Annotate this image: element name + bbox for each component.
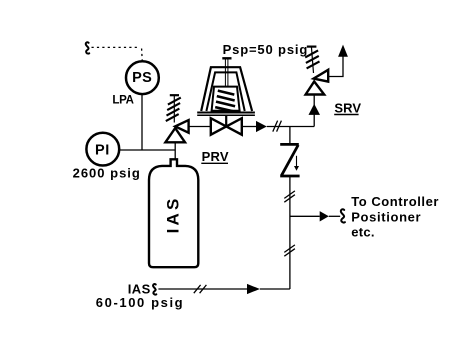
- wire: bottom line after arrow: [260, 288, 290, 290]
- arrow: small down arrow in Z: [296, 156, 298, 166]
- wire: after arrow to squiggle: [329, 215, 340, 217]
- wire: dashed signal line top-left: [92, 47, 143, 60]
- svg-text:PS: PS: [132, 70, 152, 86]
- wire: regulator outlet: [242, 126, 256, 128]
- regulator valve stem: [225, 116, 227, 127]
- svg-text:SRV: SRV: [334, 100, 361, 115]
- wire: vertical line below Z to bottom corner: [289, 176, 291, 289]
- label SRV underline: [334, 114, 358, 116]
- svg-text:PI: PI: [95, 142, 110, 158]
- svg-text:60-100 psig: 60-100 psig: [96, 295, 184, 310]
- valve PRV body (angle valve): [175, 120, 188, 133]
- regulator valve body bowtie: [211, 118, 242, 135]
- svg-text:PRV: PRV: [202, 149, 229, 164]
- pressure switch PS circle: [126, 61, 159, 94]
- arrow: flow right on bottom line: [247, 284, 260, 294]
- wire: SRV vent line: [328, 56, 343, 77]
- wire: PI to tank riser horizontal: [119, 149, 175, 151]
- wire: PS to main line vertical: [141, 94, 143, 150]
- svg-text:Positioner: Positioner: [351, 209, 421, 224]
- svg-text:To Controller: To Controller: [351, 194, 439, 209]
- hatch marks lower on vertical: [284, 245, 295, 256]
- wire: junction down from outlet line to Z restrictor: [289, 127, 291, 145]
- arrow: flow right after regulator: [256, 121, 267, 132]
- node: break squiggle S top-left: [86, 42, 90, 53]
- arrow: flow up into SRV: [309, 104, 321, 115]
- regulator spring coils: [215, 91, 235, 112]
- regulator actuator outer trapezoid: [201, 67, 252, 111]
- node: break squiggle at IAS supply: [153, 284, 156, 295]
- regulator adjustment screw: [222, 57, 231, 59]
- pressure indicator PI circle: [86, 133, 119, 166]
- valve SRV spring hatch: [305, 47, 319, 73]
- svg-text:etc.: etc.: [351, 225, 375, 240]
- valve PRV spring hatch: [166, 95, 181, 122]
- regulator diaphragm plate (double line): [197, 112, 255, 114]
- hatch marks on outlet line: [273, 121, 282, 132]
- regulator actuator inner trapezoid: [206, 72, 244, 111]
- restrictor Z symbol: [280, 144, 299, 176]
- tank IAS outline with nozzle: [149, 159, 198, 267]
- svg-text:LPA: LPA: [112, 94, 133, 106]
- node: break squiggle at controller branch: [341, 209, 345, 222]
- hatch marks on bottom line: [194, 285, 207, 293]
- valve SRV body (angle valve): [314, 70, 329, 82]
- label PRV underline: [201, 162, 228, 164]
- arrow: vent to atmosphere: [338, 45, 348, 57]
- wire: bottom supply line: [158, 288, 247, 290]
- wire: riser from PRV down to tank nozzle: [174, 142, 176, 160]
- arrow: to controller: [320, 211, 329, 221]
- wire: SRV inlet riser: [313, 95, 315, 127]
- svg-text:IAS: IAS: [164, 195, 183, 233]
- svg-text:Psp=50 psig: Psp=50 psig: [223, 42, 309, 57]
- wire: outlet line to SRV riser corner: [267, 126, 314, 128]
- regulator spring box: [212, 87, 240, 111]
- svg-text:2600 psig: 2600 psig: [73, 165, 141, 180]
- wire: branch to controller: [290, 215, 320, 217]
- wire: PRV outlet to regulator: [189, 126, 211, 128]
- svg-text:IAS: IAS: [128, 281, 151, 296]
- hatch marks upper on vertical: [284, 191, 295, 202]
